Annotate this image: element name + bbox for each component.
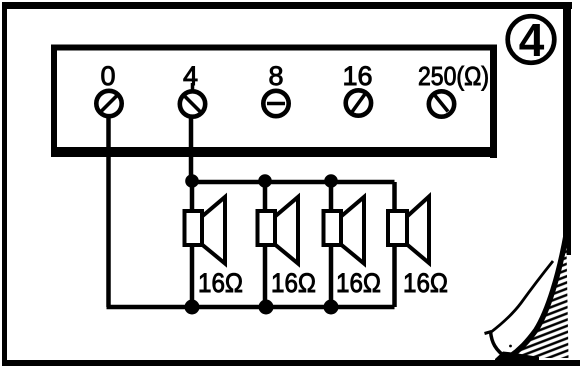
terminal strip box xyxy=(51,45,497,159)
page curl white flap xyxy=(491,261,554,358)
page curl corner nib xyxy=(485,332,492,334)
border frame top xyxy=(3,2,572,9)
terminal screw 16 xyxy=(346,90,371,115)
terminal screw 250 xyxy=(429,91,454,116)
node top bus junction 2 xyxy=(258,174,272,188)
speck in flap xyxy=(509,345,512,348)
node top bus junction 3 xyxy=(324,174,338,188)
svg-text:16Ω: 16Ω xyxy=(198,268,243,298)
speaker LS3 xyxy=(324,197,365,264)
border frame bottom xyxy=(2,360,580,366)
svg-text:16Ω: 16Ω xyxy=(403,268,448,298)
svg-text:16Ω: 16Ω xyxy=(271,268,316,298)
page curl shadow hatch xyxy=(508,238,569,358)
wire speaker 1 branch xyxy=(190,182,195,307)
page curl crease edge xyxy=(508,233,567,358)
node bottom bus junction 2 xyxy=(259,300,274,315)
node bottom bus junction 1 xyxy=(185,300,200,315)
svg-text:0: 0 xyxy=(100,61,115,91)
page curl flap top edge xyxy=(491,261,554,333)
terminal screw 0 xyxy=(96,91,121,116)
wire terminal 4 to top bus xyxy=(189,114,194,182)
speaker LS2 xyxy=(258,197,299,264)
page curl hook xyxy=(491,332,508,359)
wire stub above screw 4 xyxy=(191,83,195,92)
svg-text:8: 8 xyxy=(268,61,283,91)
speaker LS4 xyxy=(388,197,429,264)
wire speaker 3 branch xyxy=(329,182,334,307)
wire speaker 4 branch xyxy=(392,182,397,307)
border frame right xyxy=(563,2,571,255)
wire bottom bus xyxy=(107,305,395,310)
terminal screw 4 xyxy=(180,91,205,116)
border frame left xyxy=(2,2,7,366)
svg-text:16: 16 xyxy=(342,61,372,91)
wire terminal 0 to bottom bus xyxy=(106,114,111,307)
node bottom bus junction 3 xyxy=(324,300,339,315)
page curl bottom shadow wedge xyxy=(495,352,539,362)
svg-text:4: 4 xyxy=(183,61,198,91)
wire top bus xyxy=(189,180,395,185)
speaker LS1 xyxy=(185,197,226,264)
node top bus junction 1 xyxy=(185,174,199,188)
terminal screw 8 xyxy=(263,91,288,116)
svg-text:16Ω: 16Ω xyxy=(336,268,381,298)
svg-text:250(Ω): 250(Ω) xyxy=(418,61,489,91)
svg-text:4: 4 xyxy=(519,14,545,66)
figure badge circled 4 xyxy=(508,14,555,66)
wire speaker 2 branch xyxy=(263,182,268,307)
